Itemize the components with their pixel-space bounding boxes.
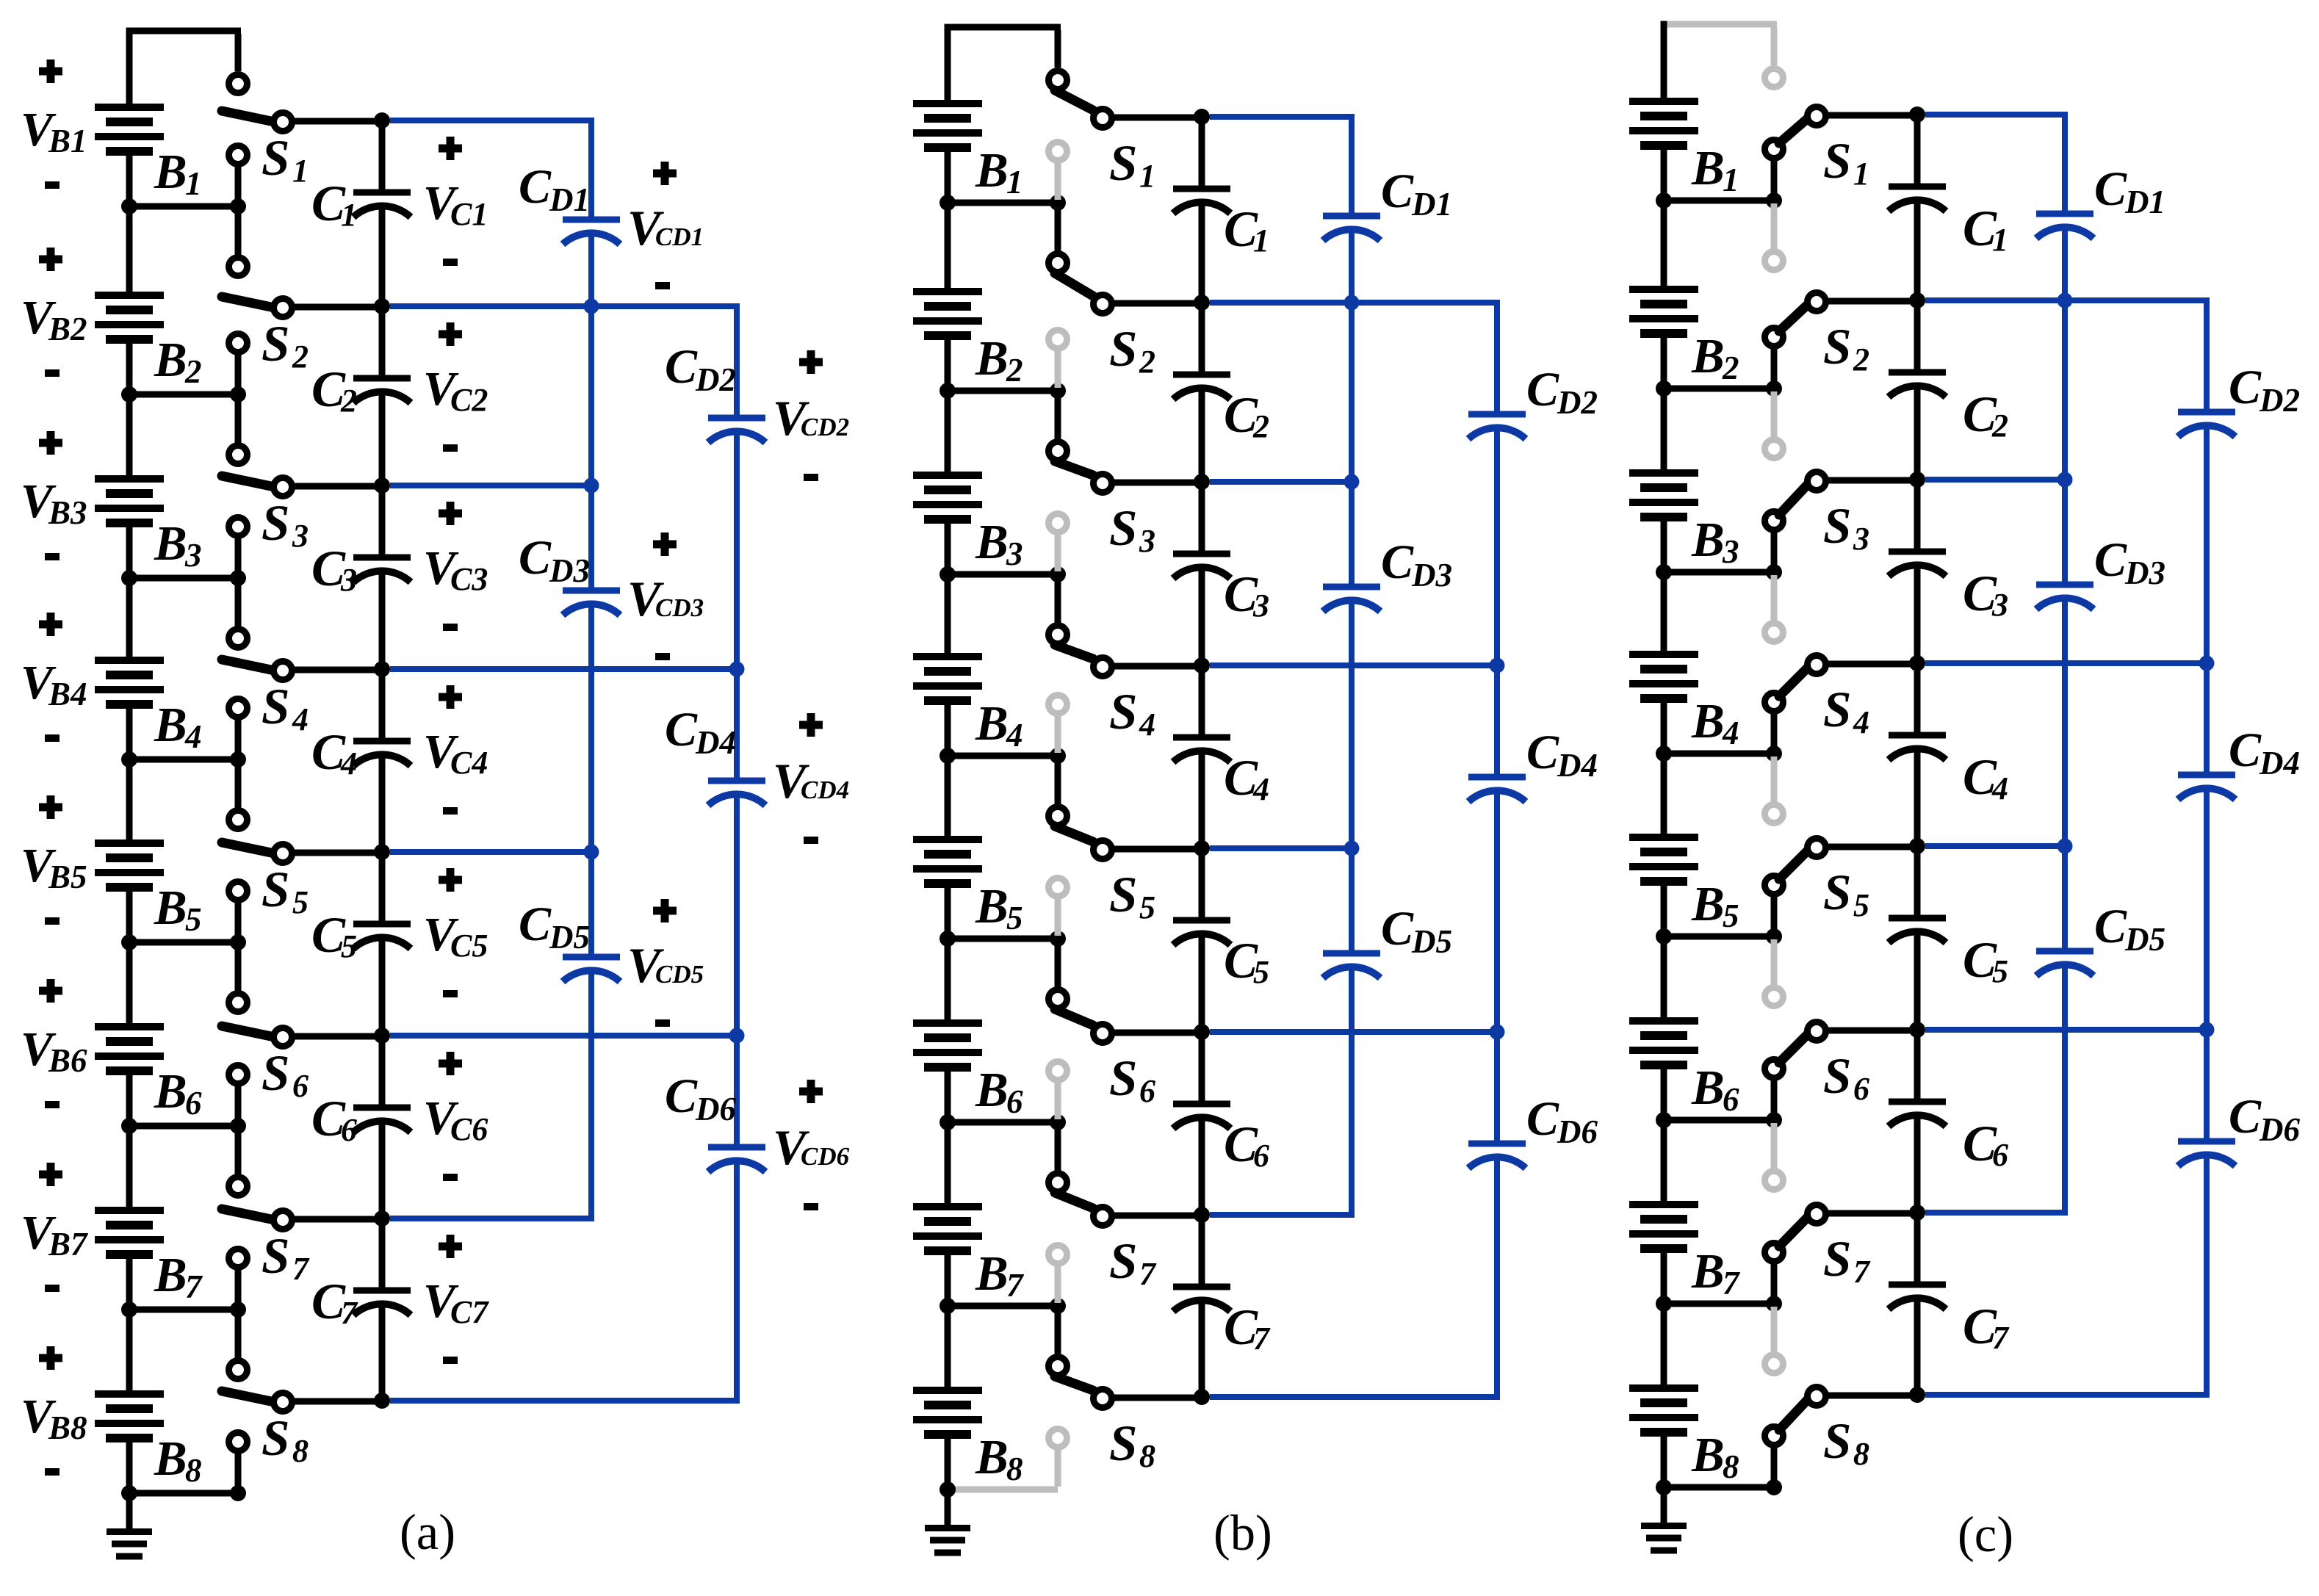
label S1 (panel c) [1823, 133, 1869, 192]
svg-text:B: B [975, 1430, 1009, 1484]
svg-text:5: 5 [1853, 887, 1869, 923]
battery B8 (panel a) [95, 1310, 164, 1493]
node: junction 2 at battery column (panel a) [121, 386, 137, 402]
svg-text:D4: D4 [695, 724, 736, 761]
svg-text:B: B [154, 698, 187, 752]
label plus of V_B2 [39, 248, 62, 271]
battery B8 (panel b) [913, 1306, 982, 1490]
capacitor C4 (panel c) [1889, 735, 1946, 760]
battery B7 (panel b) [913, 1122, 982, 1306]
label C_D1 (panel a) [519, 160, 590, 218]
node 7 on capacitor column (panel c) [1909, 1205, 1925, 1221]
node: CD rail 1 at node 3 (panel a) [584, 478, 599, 494]
node: junction 4 at switch column (panel b) [1050, 748, 1066, 764]
svg-text:CD3: CD3 [655, 593, 704, 622]
wire: S8 pole to capacitor node 8 (panel c) [1826, 1393, 1917, 1399]
wire: S6 pole to capacitor node 6 (panel b) [1112, 1030, 1202, 1036]
svg-text:C: C [519, 160, 552, 214]
svg-text:3: 3 [1722, 533, 1739, 570]
capacitor CD1 (panel a) [563, 220, 620, 245]
svg-text:D2: D2 [2259, 382, 2300, 419]
capacitor CD2 (panel b) [1468, 414, 1526, 439]
capacitor CD4 (panel c) [2178, 775, 2235, 800]
label V_CD1 [627, 200, 704, 256]
label S7 (panel c) [1823, 1231, 1871, 1290]
node: junction 5 at switch column (panel b) [1050, 931, 1066, 947]
switch S2 (panel a) [222, 258, 292, 353]
label minus of V_B2 [45, 369, 59, 377]
wire: S2 lower contact down to junction 2 (panel a) [235, 355, 242, 391]
svg-text:C: C [2094, 900, 2127, 953]
svg-text:3: 3 [292, 518, 309, 554]
node 1 on capacitor column (panel b) [1194, 109, 1210, 125]
wire: junction 3 down to S4 upper contact (panel a) [235, 581, 242, 627]
node: junction 5 at switch column (panel c) [1766, 928, 1782, 945]
node 3 on capacitor column (panel a) [374, 477, 390, 494]
wire: S4 lower contact down to junction 4 (panel b) [1055, 716, 1061, 753]
battery B3 (panel a) [95, 394, 164, 578]
wire: junction 6 below B6 to switch column (panel c) [1664, 1117, 1774, 1124]
label B2 (panel c) [1691, 329, 1739, 386]
wire: node 5 line to CD rail (panel c) [1925, 843, 2065, 849]
svg-text:6: 6 [185, 1085, 202, 1122]
wire: capacitor ladder column (panel a) [379, 120, 386, 1401]
node: junction 1 at switch column (panel b) [1050, 195, 1066, 211]
wire: junction 7 below B7 to switch column (panel c) [1664, 1301, 1774, 1307]
svg-text:7: 7 [1853, 1254, 1871, 1290]
label C6 (panel b) [1224, 1116, 1269, 1174]
label V_B6 [21, 1022, 87, 1079]
wire: battery B1 positive top lead (panel b) [945, 24, 951, 106]
capacitor C2 (panel b) [1173, 375, 1230, 400]
svg-text:B: B [1691, 694, 1725, 748]
wire: node 5 line to CD rail (panel b) [1210, 845, 1352, 851]
svg-text:B: B [1691, 513, 1725, 567]
wire: junction 4 down to S5 upper contact (panel b) [1055, 759, 1061, 804]
wire: S4 pole to capacitor node 4 (panel b) [1112, 663, 1202, 670]
svg-text:B: B [154, 1431, 187, 1486]
capacitor CD4 (panel a) [708, 781, 765, 806]
svg-text:C: C [1526, 363, 1559, 416]
caption (c) [1958, 1506, 2013, 1562]
node 5 on capacitor column (panel a) [374, 844, 390, 860]
label B2 (panel b) [975, 331, 1023, 389]
svg-text:2: 2 [340, 383, 357, 419]
battery B5 (panel c) [1629, 754, 1698, 936]
svg-text:4: 4 [184, 718, 202, 755]
label S3 (panel a) [262, 495, 309, 554]
switch S8 (panel b) [1049, 1357, 1112, 1448]
node 3 on capacitor column (panel c) [1909, 472, 1925, 488]
wire: top link from B1 positive to switch S1 top contact (panel b) [945, 27, 1061, 68]
svg-text:S: S [1109, 321, 1137, 377]
node: junction 3 at battery column (panel c) [1656, 564, 1672, 580]
svg-text:1: 1 [1253, 223, 1269, 259]
label C_D2 (panel c) [2229, 361, 2300, 419]
capacitor CD2 (panel a) [708, 418, 765, 443]
node: junction 7 at switch column (panel b) [1050, 1298, 1066, 1314]
node: junction 7 at switch column (panel a) [230, 1301, 246, 1318]
wire: S1 lower contact down to junction 1 (panel a) [235, 167, 242, 203]
switch S3 (panel a) [222, 446, 292, 536]
label V_C3 [423, 541, 488, 597]
battery B1 (panel a) [95, 104, 164, 206]
svg-text:B: B [975, 143, 1009, 198]
svg-text:8: 8 [1853, 1436, 1869, 1472]
svg-text:C: C [2229, 1090, 2262, 1144]
label minus of V_CD6 [804, 1203, 818, 1210]
svg-text:(c): (c) [1958, 1506, 2013, 1562]
svg-text:5: 5 [341, 928, 357, 964]
label S3 (panel c) [1823, 498, 1869, 557]
wire: node 8 line to CD rail (panel c) [1925, 1392, 2207, 1398]
label B4 (panel c) [1691, 694, 1739, 751]
label C_D5 (panel b) [1381, 902, 1452, 960]
label minus of V_B4 [45, 734, 59, 742]
node: CD rail 1 at node 5 (panel a) [584, 845, 599, 860]
wire: node 2 line to CD rail (panel a) [390, 303, 737, 309]
wire: S4 pole to capacitor node 4 (panel a) [292, 667, 382, 674]
label V_B3 [21, 474, 87, 531]
wire: node 8 line to CD rail (panel a) [390, 1398, 737, 1404]
label minus of V_B5 [45, 917, 59, 925]
svg-text:S: S [1109, 1050, 1137, 1106]
wire: junction 6 down to S7 upper contact (panel b) [1055, 1125, 1061, 1171]
label S1 (panel a) [262, 130, 309, 189]
wire: battery B1 positive top lead (panel a) [126, 28, 133, 109]
svg-text:C2: C2 [450, 382, 488, 418]
svg-text:B: B [154, 145, 187, 199]
caption (b) [1213, 1505, 1272, 1561]
wire: junction 3 down to S4 upper contact (panel c) [1771, 575, 1778, 621]
svg-text:5: 5 [1992, 953, 2008, 989]
wire: S6 lower contact down to junction 6 (panel c) [1771, 1080, 1778, 1117]
svg-text:CD2: CD2 [801, 413, 849, 441]
capacitor CD3 (panel b) [1323, 587, 1380, 612]
svg-text:S: S [1823, 133, 1851, 189]
label C7 (panel c) [1963, 1299, 2010, 1356]
svg-text:8: 8 [1006, 1451, 1023, 1487]
wire: S6 pole to capacitor node 6 (panel c) [1826, 1028, 1917, 1034]
wire: junction 5 down to S6 upper contact (panel a) [235, 945, 242, 991]
wire: S3 lower contact down to junction 3 (panel b) [1055, 535, 1061, 571]
label minus of V_C5 [443, 990, 458, 997]
node 8 on capacitor column (panel a) [374, 1393, 390, 1409]
wire: S2 pole to capacitor node 2 (panel b) [1112, 300, 1202, 307]
label V_C7 [423, 1274, 489, 1330]
svg-text:1: 1 [341, 197, 357, 233]
wire: node 6 line to CD rail (panel b) [1210, 1029, 1497, 1035]
label V_C2 [423, 362, 488, 418]
node: junction 8 at battery column (panel b) [939, 1481, 956, 1498]
svg-text:S: S [262, 130, 289, 186]
wire: S1 lower contact down to junction 1 (panel b) [1055, 163, 1061, 200]
battery B1 (panel c) [1629, 98, 1698, 201]
node 1 on capacitor column (panel c) [1909, 106, 1925, 123]
svg-text:D6: D6 [2259, 1111, 2300, 1148]
wire: CD rail 1 from node 1 to node 7 (panel c) [2062, 112, 2068, 1216]
svg-text:D5: D5 [2124, 921, 2165, 958]
node: CD rail 2 at node 6 (panel c) [2199, 1022, 2215, 1038]
label S4 (panel a) [262, 679, 309, 737]
svg-text:1: 1 [1006, 164, 1023, 201]
wire: junction 2 below B2 to switch column (panel b) [948, 388, 1058, 394]
label V_C6 [423, 1091, 488, 1147]
battery B8 (panel c) [1629, 1304, 1698, 1487]
battery B4 (panel a) [95, 578, 164, 759]
node: junction 4 at battery column (panel b) [939, 748, 956, 764]
svg-text:S: S [1823, 682, 1851, 737]
label C_D6 (panel b) [1526, 1092, 1598, 1150]
label C1 (panel a) [311, 176, 357, 233]
wire: S2 lower contact down to junction 2 (panel b) [1055, 351, 1061, 388]
label B6 (panel b) [975, 1063, 1023, 1120]
svg-text:3: 3 [1853, 521, 1869, 557]
svg-text:C4: C4 [450, 745, 488, 781]
svg-text:C3: C3 [450, 561, 488, 597]
svg-text:C6: C6 [450, 1111, 488, 1147]
node: junction 5 at switch column (panel a) [230, 934, 246, 950]
label plus of V_B7 [39, 1163, 62, 1186]
wire: junction 7 below B7 to switch column (panel b) [948, 1303, 1058, 1310]
label minus of V_C4 [443, 807, 458, 815]
label minus of V_C1 [443, 259, 458, 266]
svg-text:B: B [975, 1246, 1009, 1301]
label B4 (panel a) [154, 698, 202, 755]
label minus of V_CD3 [655, 653, 670, 660]
svg-text:6: 6 [1853, 1071, 1869, 1107]
label C_D4 (panel b) [1526, 726, 1598, 784]
node: CD rail 2 at node 4 (panel c) [2199, 656, 2215, 671]
capacitor C6 (panel b) [1173, 1104, 1230, 1129]
node: junction 3 at switch column (panel b) [1050, 566, 1066, 582]
label C_D1 (panel b) [1381, 165, 1452, 223]
capacitor CD6 (panel b) [1468, 1144, 1526, 1169]
svg-text:S: S [1823, 498, 1851, 554]
svg-text:B: B [1691, 329, 1725, 383]
svg-text:C: C [665, 340, 698, 394]
wire: S8 lower contact down to junction 8 (panel c) [1771, 1448, 1778, 1484]
wire: node 3 line to CD rail (panel b) [1210, 479, 1352, 485]
svg-text:S: S [262, 1410, 289, 1466]
wire: capacitor ladder column (panel b) [1199, 117, 1205, 1397]
wire: node 1 line to CD rail (panel b) [1210, 114, 1352, 120]
label C6 (panel a) [311, 1091, 357, 1148]
svg-text:4: 4 [340, 745, 357, 781]
wire: junction 7 down to S8 upper contact (panel c) [1771, 1307, 1778, 1352]
wire: S7 lower contact down to junction 7 (panel a) [235, 1270, 242, 1307]
svg-text:5: 5 [1253, 954, 1269, 990]
wire: node 7 line to CD rail (panel a) [390, 1216, 591, 1221]
svg-text:(a): (a) [400, 1504, 455, 1560]
label S5 (panel b) [1109, 867, 1155, 925]
node 2 on capacitor column (panel b) [1194, 295, 1210, 311]
label B7 (panel b) [975, 1246, 1024, 1304]
label plus of V_CD5 [653, 899, 677, 922]
label C_D6 (panel c) [2229, 1090, 2300, 1148]
wire: junction 1 down to S2 upper contact (panel b) [1055, 206, 1061, 251]
node: CD rail 2 at node 6 (panel a) [729, 1028, 745, 1044]
wire: S1 pole to capacitor node 1 (panel c) [1826, 112, 1917, 119]
wire: top link from B1 positive to switch S1 top contact (panel c) [1667, 24, 1777, 65]
node: junction 5 at battery column (panel b) [939, 931, 956, 947]
wire: S4 pole to capacitor node 4 (panel c) [1826, 661, 1917, 668]
svg-text:B8: B8 [48, 1409, 87, 1446]
wire: node 8 line to CD rail (panel b) [1210, 1394, 1497, 1400]
capacitor C1 (panel b) [1173, 189, 1230, 214]
wire: junction 2 below B2 to switch column (panel c) [1664, 386, 1774, 392]
wire: node 3 line to CD rail (panel a) [390, 483, 591, 488]
svg-text:C: C [1526, 1092, 1559, 1146]
label V_CD3 [627, 571, 704, 627]
caption (a) [400, 1504, 455, 1560]
svg-text:2: 2 [1991, 408, 2008, 444]
label S6 (panel c) [1823, 1048, 1869, 1107]
label B3 (panel b) [975, 515, 1023, 572]
svg-text:C: C [2229, 723, 2262, 777]
capacitor C3 (panel a) [353, 557, 411, 582]
svg-text:6: 6 [1139, 1073, 1155, 1109]
svg-text:C: C [519, 898, 552, 951]
switch S4 (panel c) [1765, 624, 1826, 712]
label C5 (panel a) [311, 907, 357, 964]
wire: S8 lower contact down to junction 8 (panel a) [235, 1454, 242, 1490]
battery B7 (panel a) [95, 1126, 164, 1310]
wire: S7 lower contact down to junction 7 (panel b) [1055, 1266, 1061, 1303]
wire: S5 pole to capacitor node 5 (panel c) [1826, 844, 1917, 851]
svg-text:5: 5 [292, 884, 309, 920]
svg-text:2: 2 [1853, 342, 1869, 378]
wire: S3 lower contact down to junction 3 (panel c) [1771, 532, 1778, 569]
svg-text:1: 1 [185, 165, 202, 202]
node 8 on capacitor column (panel c) [1909, 1387, 1925, 1403]
node: CD rail 1 at node 3 (panel c) [2057, 472, 2073, 488]
svg-text:S: S [1109, 500, 1137, 556]
label plus of V_C4 [439, 685, 462, 709]
label S1 (panel b) [1109, 135, 1155, 194]
svg-text:5: 5 [1723, 898, 1739, 934]
wire: S8 pole to capacitor node 8 (panel a) [292, 1398, 382, 1405]
svg-text:D4: D4 [1557, 747, 1598, 784]
capacitor C2 (panel c) [1889, 372, 1946, 397]
svg-text:2: 2 [1139, 344, 1155, 380]
svg-text:B: B [975, 515, 1009, 569]
svg-text:B: B [1691, 1428, 1725, 1482]
wire: S5 lower contact down to junction 5 (panel b) [1055, 899, 1061, 936]
svg-text:CD5: CD5 [655, 960, 704, 989]
wire: CD rail 2 from node 2 to node 8 (panel c) [2204, 297, 2210, 1398]
label B1 (panel b) [975, 143, 1023, 201]
label plus of V_CD4 [799, 713, 823, 737]
label S5 (panel c) [1823, 864, 1869, 923]
wire: junction 7 below B7 to switch column (panel a) [129, 1307, 238, 1313]
wire: S5 lower contact down to junction 5 (panel a) [235, 903, 242, 939]
label S4 (panel b) [1109, 684, 1155, 743]
svg-text:8: 8 [185, 1452, 202, 1489]
label S7 (panel a) [262, 1228, 310, 1287]
svg-text:B3: B3 [48, 494, 87, 531]
capacitor C5 (panel c) [1889, 918, 1946, 943]
label S8 (panel b) [1109, 1415, 1155, 1474]
label V_CD4 [773, 753, 849, 809]
battery B6 (panel b) [913, 939, 982, 1122]
label C4 (panel b) [1224, 750, 1269, 807]
svg-text:4: 4 [1139, 707, 1155, 743]
battery B6 (panel a) [95, 942, 164, 1126]
wire: node 3 line to CD rail (panel c) [1925, 477, 2065, 483]
wire: junction 4 below B4 to switch column (panel c) [1664, 751, 1774, 757]
capacitor CD2 (panel c) [2178, 412, 2235, 437]
switch S6 (panel a) [222, 994, 292, 1084]
label B5 (panel c) [1691, 877, 1739, 934]
switch S7 (panel c) [1765, 1171, 1826, 1262]
label plus of V_B5 [39, 795, 62, 819]
svg-text:C1: C1 [450, 196, 488, 232]
svg-text:B: B [154, 881, 187, 935]
battery B5 (panel b) [913, 756, 982, 939]
node: junction 6 at battery column (panel c) [1656, 1112, 1672, 1128]
wire: capacitor ladder column (panel c) [1914, 115, 1921, 1395]
label C_D5 (panel a) [519, 898, 590, 956]
label minus of V_B8 [45, 1468, 59, 1476]
label plus of V_CD6 [799, 1080, 823, 1103]
node: junction 1 at battery column (panel a) [121, 198, 137, 214]
label plus of V_B3 [39, 431, 62, 455]
wire: junction 3 below B3 to switch column (panel b) [948, 571, 1058, 578]
svg-text:7: 7 [292, 1251, 310, 1287]
wire: junction 2 down to S3 upper contact (panel a) [235, 397, 242, 443]
wire: junction 5 below B5 to switch column (panel c) [1664, 934, 1774, 940]
wire: junction 2 down to S3 upper contact (panel b) [1055, 394, 1061, 439]
node: CD rail 1 at node 2 (panel a) [584, 299, 599, 314]
wire: junction 1 below B1 to switch column (panel b) [948, 200, 1058, 206]
label minus of V_B1 [45, 181, 59, 189]
wire: S7 pole to capacitor node 7 (panel a) [292, 1216, 382, 1223]
wire: S1 lower contact down to junction 1 (panel c) [1771, 161, 1778, 198]
svg-text:2: 2 [184, 353, 202, 390]
label V_B7 [21, 1206, 88, 1263]
svg-text:D3: D3 [1411, 557, 1452, 593]
capacitor C3 (panel c) [1889, 552, 1946, 577]
svg-text:1: 1 [1853, 156, 1869, 192]
capacitor CD6 (panel a) [708, 1147, 765, 1172]
svg-text:B: B [1691, 141, 1725, 195]
node: junction 1 at battery column (panel b) [939, 195, 956, 211]
svg-text:S: S [1823, 319, 1851, 375]
label plus of V_CD1 [653, 162, 677, 185]
label C_D4 (panel a) [665, 703, 736, 761]
svg-text:4: 4 [1006, 717, 1023, 754]
label S6 (panel b) [1109, 1050, 1155, 1109]
label B3 (panel a) [154, 516, 202, 574]
capacitor C3 (panel b) [1173, 554, 1230, 579]
label C2 (panel b) [1224, 387, 1269, 444]
svg-text:S: S [1109, 135, 1137, 191]
svg-text:1: 1 [1992, 222, 2008, 258]
label V_C4 [423, 725, 488, 781]
capacitor C7 (panel b) [1173, 1287, 1230, 1312]
label minus of V_CD4 [804, 837, 818, 844]
svg-text:C5: C5 [450, 928, 488, 964]
wire: S2 pole to capacitor node 2 (panel c) [1826, 298, 1917, 305]
label plus of V_C3 [439, 502, 462, 525]
wire: junction 2 below B2 to switch column (panel a) [129, 391, 238, 398]
label B2 (panel a) [154, 333, 202, 390]
wire: S3 pole to capacitor node 3 (panel c) [1826, 477, 1917, 484]
svg-text:1: 1 [292, 153, 309, 189]
svg-text:6: 6 [292, 1068, 309, 1104]
svg-text:7: 7 [1253, 1321, 1271, 1357]
